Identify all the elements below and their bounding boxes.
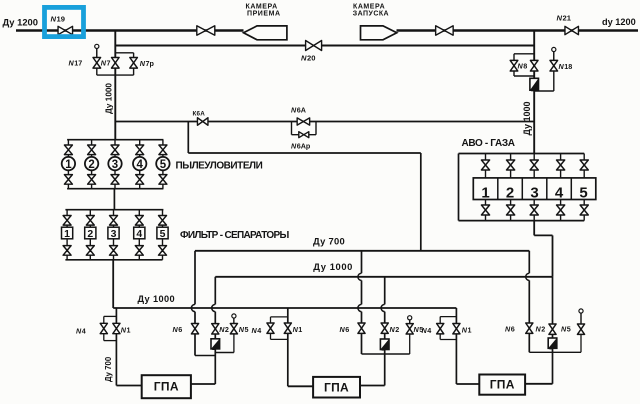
valve below AVO cooler 1	[481, 205, 489, 215]
valve N6 GPA1	[191, 324, 198, 334]
valve before receiver chamber	[197, 26, 215, 35]
svg-text:3: 3	[112, 159, 118, 171]
svg-text:ГПА: ГПА	[324, 380, 349, 394]
wire connector dust to filters	[113, 189, 115, 210]
svg-text:N5: N5	[239, 325, 249, 334]
valve below AVO cooler 3	[530, 205, 538, 215]
dust collector 2 (circle)	[85, 157, 98, 171]
valve N6A	[297, 118, 310, 125]
svg-text:3: 3	[530, 184, 538, 201]
wire filter column 2	[89, 210, 91, 260]
svg-text:3: 3	[111, 228, 117, 240]
wire GPA1 N4 bypass left leg	[103, 316, 105, 340]
valve above filter separator 2	[86, 216, 94, 226]
receiver chamber КАМЕРА ПРИЕМА	[244, 26, 287, 40]
valve below filter separator 4	[135, 246, 143, 256]
valve N7 on riser	[112, 58, 120, 69]
svg-text:Ду 1000: Ду 1000	[138, 294, 176, 304]
wire AVO outlet horizontal y235	[534, 234, 552, 236]
svg-text:N19: N19	[51, 14, 65, 23]
valve below dust collector 4	[136, 175, 144, 185]
wire dust collector column 1	[67, 140, 69, 189]
vent circle N17	[95, 44, 99, 57]
wire Du1000 collector y277	[215, 276, 552, 278]
wire main outlet line y30	[397, 29, 639, 31]
svg-text:4: 4	[555, 184, 564, 201]
svg-text:Ду 700: Ду 700	[313, 235, 345, 246]
wire GPA1 N4 bypass bottom	[104, 340, 117, 342]
svg-text:ЗАПУСКА: ЗАПУСКА	[353, 11, 389, 18]
valve on right riser	[530, 60, 538, 71]
svg-text:N7р: N7р	[140, 59, 155, 68]
wire N7p bypass top stub	[115, 52, 133, 54]
wire AVO left bypass leg	[458, 154, 460, 221]
hop GPA2 N6 over suction header	[358, 304, 362, 311]
svg-text:4: 4	[136, 228, 142, 240]
valve N2 GPA2	[381, 323, 388, 333]
valve below dust collector 3	[111, 175, 119, 185]
svg-text:N2: N2	[219, 325, 229, 334]
wire N5 GPA3 vent leg	[580, 313, 582, 352]
valve N21 main outlet	[565, 26, 579, 34]
valve N20 bypass	[306, 41, 322, 51]
wire GPA2 N4 bypass left leg	[270, 317, 272, 340]
wire GPA1 N6 drop from Du700	[194, 251, 196, 356]
valve above dust collector 3	[111, 145, 119, 155]
svg-text:N1: N1	[121, 326, 131, 335]
wire AVO outlet drop	[533, 221, 535, 236]
wire N6Ap loop bottom	[292, 134, 317, 136]
wire drop from K6A line at x188	[187, 122, 189, 154]
valve above AVO cooler 4	[557, 160, 565, 170]
wire dust collector column 5	[162, 140, 164, 189]
hop GPA3 N6 over Du1000	[526, 273, 530, 280]
wire GPA3 N4 bypass bottom	[440, 339, 456, 341]
svg-text:ГПА: ГПА	[154, 380, 179, 394]
svg-text:1: 1	[481, 184, 489, 201]
valve below filter separator 1	[63, 246, 71, 256]
wire AVO column 2 bottom	[510, 200, 512, 221]
svg-text:N2: N2	[390, 325, 400, 334]
wire GPA2 outlet	[360, 385, 385, 387]
restrictor GPA2 discharge	[380, 339, 389, 350]
valve above dust collector 1	[64, 145, 72, 155]
wire N5 GPA2 vent leg	[409, 320, 411, 354]
svg-text:N8: N8	[518, 62, 528, 71]
wire AVO column 4 top	[560, 154, 562, 178]
wire dust collectors top header	[67, 139, 163, 141]
wire dust collector column 2	[91, 140, 93, 189]
wire N6Ap loop right leg	[315, 122, 317, 135]
wire GPA2 inlet	[288, 385, 313, 387]
wire AVO column 5 top	[583, 154, 585, 178]
dust collector 1 (circle)	[62, 157, 75, 171]
valve above AVO cooler 5	[580, 160, 588, 170]
valve N1 GPA3 suction	[453, 324, 460, 334]
svg-text:КАМЕРА: КАМЕРА	[353, 4, 385, 11]
valve above AVO cooler 3	[530, 160, 538, 170]
wire filter column 3	[113, 210, 115, 260]
valve N1 GPA1 suction	[113, 323, 120, 333]
wire main inlet line y30	[16, 29, 244, 31]
wire N18 bottom connector	[534, 90, 554, 92]
svg-text:N4: N4	[252, 326, 262, 335]
valve N4 GPA1 bypass	[100, 323, 107, 333]
wire suction header y308	[113, 307, 456, 309]
wire AVO column 5 bottom	[583, 200, 585, 221]
svg-text:dу 1200: dу 1200	[602, 17, 636, 27]
wire Du700 collector y251	[195, 250, 529, 252]
svg-text:N6: N6	[505, 324, 515, 333]
wire N17 vent leg	[96, 49, 98, 76]
svg-text:Ду 700: Ду 700	[104, 356, 113, 382]
valve N8 bypass	[510, 60, 518, 71]
vent circle N5 GPA3	[579, 309, 583, 324]
svg-text:Ду 1200: Ду 1200	[3, 16, 38, 27]
valve N6Ap	[299, 132, 309, 138]
restrictor below N8	[530, 78, 539, 90]
wire GPA2 N4 bypass top	[271, 316, 288, 318]
restrictor GPA3 discharge	[548, 338, 557, 348]
wire AVO bottom header	[459, 220, 585, 222]
wire line y153 to Du700	[188, 152, 420, 154]
wire GPA1 recycle left	[195, 355, 215, 357]
valve below filter separator 2	[86, 246, 94, 256]
valve above filter separator 1	[63, 216, 71, 226]
wire GPA2 N2 drop from Du1000	[384, 277, 386, 386]
valve below AVO cooler 5	[580, 205, 588, 215]
valve above dust collector 2	[88, 145, 96, 155]
svg-text:Ду 1000: Ду 1000	[105, 83, 114, 114]
wire right riser Ду1000 x534	[533, 31, 535, 154]
valve N2 GPA3	[549, 324, 556, 334]
wire GPA1 suction drop	[115, 308, 117, 386]
svg-text:ПРИЕМА: ПРИЕМА	[247, 11, 281, 18]
wire GPA3 N4 bypass left leg	[439, 317, 441, 340]
valve N7p bypass	[130, 58, 138, 69]
wire GPA3 N4 bypass top	[440, 316, 456, 318]
wire K6A bypass line y121	[115, 121, 534, 123]
svg-text:4: 4	[136, 159, 143, 171]
wire N17/N7p bottom connector	[97, 74, 134, 76]
svg-text:N1: N1	[293, 325, 303, 334]
valve N1 GPA2 suction	[284, 323, 291, 333]
svg-text:N21: N21	[557, 14, 572, 23]
filter separator 4 (box)	[134, 227, 145, 240]
valve N4 GPA3 bypass	[437, 324, 444, 334]
svg-text:КАМЕРА: КАМЕРА	[246, 4, 278, 11]
valve above filter separator 4	[135, 216, 143, 226]
valve above AVO cooler 2	[507, 160, 515, 170]
highlight box around valve N19	[45, 7, 84, 36]
wire filter column 4	[138, 210, 140, 260]
wire GPA3 outlet	[526, 383, 553, 385]
svg-text:Ду 1000: Ду 1000	[522, 101, 532, 135]
wire dust collector column 3	[114, 140, 116, 189]
AVO coolers container box 1-5	[473, 178, 596, 202]
wire station bypass line y45	[115, 45, 534, 47]
wire GPA3 inlet	[456, 383, 479, 385]
filter separator 1 (box)	[62, 227, 73, 240]
valve above filter separator 3	[110, 216, 118, 226]
valve N17 vent	[93, 58, 101, 69]
filter separator 3 (box)	[108, 227, 119, 240]
vent circle N18	[552, 47, 556, 60]
valve above dust collector 5	[159, 145, 167, 155]
svg-text:N20: N20	[301, 53, 315, 62]
wire GPA3 N2 drop from Du1000	[552, 277, 554, 384]
dust collector 3 (circle)	[108, 157, 121, 171]
wire drop x421 to Du700 header	[420, 153, 422, 251]
valve below AVO cooler 2	[507, 205, 515, 215]
valve below dust collector 2	[88, 175, 96, 185]
wire AVO column 2 top	[510, 154, 512, 178]
svg-text:N18: N18	[559, 62, 573, 71]
wire AVO outlet to Du1000 header	[552, 235, 554, 276]
svg-text:N5: N5	[561, 324, 571, 333]
hop GPA1 N2 over suction header	[212, 304, 216, 311]
valve N6 GPA2	[358, 323, 365, 333]
valve N6 GPA3	[526, 323, 533, 333]
wire GPA3 suction drop	[455, 308, 457, 384]
svg-text:2: 2	[87, 228, 93, 240]
svg-text:АВО - ГАЗА: АВО - ГАЗА	[462, 138, 515, 149]
wire filters bottom header	[65, 259, 162, 261]
valve K6A	[197, 118, 208, 126]
dust collector 4 (circle)	[133, 157, 146, 171]
svg-text:N1: N1	[462, 326, 472, 335]
wire GPA1 outlet	[191, 383, 215, 385]
wire drop filters to suction header	[112, 260, 114, 308]
svg-text:N6Ар: N6Ар	[291, 142, 311, 151]
valve above filter separator 5	[159, 216, 167, 226]
valve N19 main inlet	[58, 26, 73, 34]
wire AVO column 3 top	[533, 154, 535, 178]
svg-text:Ду 1000: Ду 1000	[313, 261, 353, 272]
svg-text:5: 5	[160, 228, 166, 240]
wire GPA1 recycle right	[215, 352, 234, 354]
hop GPA2 N2 over suction header	[381, 304, 385, 311]
svg-text:N6: N6	[340, 325, 350, 334]
svg-text:N7: N7	[101, 59, 111, 68]
wire GPA2 N6 drop from Du700	[361, 251, 363, 354]
vent circle N5 GPA1	[232, 314, 236, 324]
valve below filter separator 5	[159, 246, 167, 256]
wire GPA2 N4 bypass bottom	[271, 338, 288, 340]
filter separator 2 (box)	[85, 227, 96, 240]
wire GPA1 N4 bypass top	[104, 315, 117, 317]
valve below AVO cooler 4	[557, 205, 565, 215]
valve N18 vent	[550, 60, 558, 71]
wire filter column 5	[162, 210, 164, 260]
wire AVO column 4 bottom	[560, 200, 562, 221]
wire filter column 1	[66, 210, 68, 260]
svg-text:К6А: К6А	[193, 111, 206, 118]
valve below filter separator 3	[110, 246, 118, 256]
GPA2 unit box	[313, 377, 360, 398]
svg-text:2: 2	[506, 184, 514, 201]
wire N6Ap loop left leg	[291, 122, 293, 135]
svg-text:N6А: N6А	[291, 106, 306, 115]
wire N8 bypass top stub	[514, 53, 534, 55]
wire dust collector column 4	[139, 140, 141, 189]
svg-text:2: 2	[88, 159, 94, 171]
wire N7p bypass right leg	[133, 53, 135, 75]
wire GPA1 N2 drop from Du1000	[214, 277, 216, 384]
filter separator 5 (box)	[157, 227, 168, 240]
wire AVO column 1 bottom	[485, 200, 487, 221]
GPA1 unit box	[142, 375, 191, 398]
valve N5 GPA3 vent	[577, 324, 584, 334]
svg-text:N17: N17	[69, 59, 83, 68]
wire N8 bypass left leg	[513, 54, 515, 76]
hop GPA2 N6 over Du1000	[358, 273, 362, 280]
valve N4 GPA2 bypass	[267, 323, 274, 333]
wire N5 GPA1 vent leg	[233, 318, 235, 352]
svg-text:N6: N6	[173, 325, 183, 334]
GPA3 unit box	[479, 375, 525, 395]
hop GPA1 N6 over suction header	[191, 304, 195, 311]
valve N5 GPA1 vent	[230, 324, 237, 334]
svg-text:ФИЛЬТР - СЕПАРАТОРЫ: ФИЛЬТР - СЕПАРАТОРЫ	[180, 230, 289, 241]
wire filters top header	[65, 209, 163, 211]
valve above AVO cooler 1	[481, 160, 489, 170]
valve above dust collector 4	[136, 145, 144, 155]
valve below dust collector 1	[64, 175, 72, 185]
svg-text:5: 5	[160, 159, 167, 171]
vent circle N5 GPA2	[408, 316, 412, 324]
wire GPA3 recycle	[529, 351, 581, 353]
wire left riser Ду1000 x115	[114, 31, 116, 140]
wire AVO top header	[459, 153, 585, 155]
svg-text:N2: N2	[536, 324, 546, 333]
svg-text:ПЫЛЕУЛОВИТЕЛИ: ПЫЛЕУЛОВИТЕЛИ	[176, 161, 263, 172]
wire GPA2 suction drop	[287, 308, 289, 386]
wire AVO column 3 bottom	[533, 200, 535, 221]
svg-text:ГПА: ГПА	[490, 378, 515, 392]
valve after launcher chamber	[436, 26, 454, 35]
valve N5 GPA2 vent	[406, 324, 413, 334]
svg-text:1: 1	[65, 159, 72, 171]
svg-text:1: 1	[64, 228, 70, 240]
valve below dust collector 5	[159, 175, 167, 185]
wire GPA3 N6 drop from Du700	[528, 251, 530, 352]
restrictor GPA1 discharge	[211, 339, 220, 349]
wire dust collectors bottom header	[67, 188, 163, 190]
svg-text:N4: N4	[76, 326, 86, 335]
wire N8 bypass bottom stub	[514, 75, 534, 77]
svg-text:5: 5	[579, 184, 587, 201]
wire AVO column 1 top	[485, 154, 487, 178]
dust collector 5 (circle)	[156, 157, 169, 171]
launcher chamber КАМЕРА ЗАПУСКА	[361, 26, 397, 40]
svg-text:N4: N4	[422, 326, 432, 335]
valve N2 GPA1	[212, 324, 219, 334]
wire GPA1 inlet	[116, 385, 141, 387]
wire GPA2 recycle	[362, 353, 410, 355]
wire N18 vent leg	[553, 52, 555, 91]
